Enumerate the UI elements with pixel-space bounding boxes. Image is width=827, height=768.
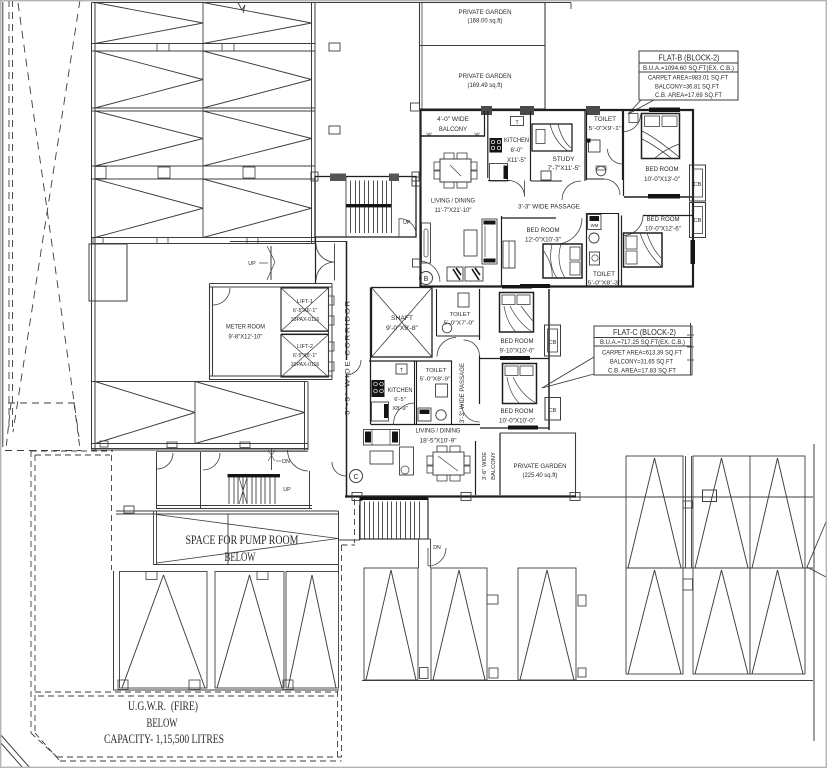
svg-text:LIFT-2: LIFT-2	[297, 344, 313, 350]
flat-B leader line	[628, 100, 641, 114]
svg-text:BALCONY=36.81 SQ.FT: BALCONY=36.81 SQ.FT	[655, 84, 719, 91]
top edge extension line	[545, 2, 571, 4]
svg-text:B: B	[424, 276, 429, 283]
cupboard CB-1 flat-B	[690, 165, 706, 201]
kitchen-B bottom wall and door arc	[488, 180, 510, 182]
shaft box with X brace	[372, 288, 433, 358]
parking stall row4 right wedge	[203, 179, 312, 238]
pump room inner divider line	[227, 514, 229, 565]
flat-C toilet2 WC	[436, 410, 446, 420]
lower stair box	[360, 499, 428, 540]
parking stall row4 left wedge	[95, 179, 203, 238]
flat-C coffee table	[370, 451, 393, 464]
pillars on bottom wall	[352, 493, 362, 501]
bedroom-B2 left wall	[621, 216, 623, 287]
parking stall row3 left wedge	[95, 111, 203, 166]
UGWR boundary dashed inner vertical	[111, 455, 113, 570]
svg-text:METER ROOM: METER ROOM	[226, 324, 265, 331]
study bed furniture	[532, 124, 572, 151]
UGWR boundary dashed left vertical double	[30, 451, 32, 733]
svg-text:UP: UP	[248, 261, 256, 267]
flat-C kitchen door arc	[394, 403, 415, 424]
parking top edge line	[92, 2, 420, 4]
flat-C toilet1 left wall	[436, 289, 438, 336]
bedroom-B2 top wall with door	[643, 215, 693, 217]
entrance UP door leaf	[270, 246, 272, 280]
lift-1 door jambs	[329, 296, 335, 305]
vestibule room walls	[156, 452, 158, 508]
svg-text:12'-0"X10'-3": 12'-0"X10'-3"	[525, 238, 561, 244]
kitchen-B stove	[490, 138, 503, 153]
svg-text:(169.49 sq.ft): (169.49 sq.ft)	[468, 83, 503, 89]
flat-C dining table	[433, 452, 464, 475]
mid stair top wall double	[92, 448, 309, 450]
lift divider wall	[281, 331, 329, 333]
svg-text:CB: CB	[548, 340, 556, 346]
svg-text:CAPACITY- 1,15,500 LITRES: CAPACITY- 1,15,500 LITRES	[104, 731, 224, 746]
UGWR boundary dashed line below tank stalls	[35, 691, 338, 693]
flat-C kitchen stove	[372, 380, 385, 397]
mid stair break X mark	[239, 478, 247, 505]
kitchen-B counter	[490, 164, 508, 182]
private garden outer box	[420, 3, 546, 110]
svg-text:U.G.W.R. (FIRE): U.G.W.R. (FIRE)	[128, 698, 198, 713]
flat-C bedroom divider wall	[480, 358, 549, 360]
svg-text:(225.40 sq.ft): (225.40 sq.ft)	[523, 473, 558, 479]
svg-text:KITCHEN: KITCHEN	[388, 388, 413, 394]
niche room on left wall	[89, 244, 127, 301]
DN door to lower stair	[428, 548, 446, 566]
left wall pillar stubs	[412, 177, 421, 186]
svg-text:10'-0"X10'-0": 10'-0"X10'-0"	[499, 419, 535, 425]
flat-C bedroom1 door arc	[464, 340, 480, 356]
toilet-B1 door arc	[608, 149, 623, 164]
svg-text:BALCONY: BALCONY	[491, 452, 497, 480]
mid stair bottom wall double	[156, 505, 312, 507]
living-B coffee table	[464, 230, 477, 256]
meter room door arc	[213, 288, 230, 305]
flat-C kitchen left wall	[370, 288, 372, 425]
svg-text:9'-10"X10'-0": 9'-10"X10'-0"	[500, 349, 535, 355]
flat-C kitchen counter	[372, 402, 389, 421]
svg-text:LIVING / DINING: LIVING / DINING	[416, 428, 461, 435]
svg-text:9'-0"X9'-8": 9'-0"X9'-8"	[386, 326, 418, 332]
svg-text:5'-0"X9'-1": 5'-0"X9'-1"	[589, 126, 622, 132]
site boundary dashed line left	[8, 0, 10, 428]
svg-text:TOILET: TOILET	[450, 312, 471, 318]
balcony-C walls	[475, 441, 477, 495]
living-B sofa along left wall	[422, 223, 431, 263]
flat-C bedroom right wall	[548, 289, 550, 430]
vestibule door arcs	[157, 453, 173, 469]
balcony-B right wall	[484, 111, 486, 136]
parking stall bottom-A	[364, 568, 418, 680]
svg-text:BED ROOM: BED ROOM	[501, 408, 534, 415]
flat-C leader lines	[542, 357, 594, 388]
break arrow mark right edge	[807, 522, 826, 577]
mid stair DN door leaf	[271, 449, 273, 470]
svg-text:10PAX-0116: 10PAX-0116	[291, 362, 320, 368]
UGWR boundary dashed top	[31, 450, 113, 452]
bedroom-B1 door arc	[624, 115, 641, 132]
svg-text:6'-5": 6'-5"	[394, 397, 406, 403]
flat-C cupboard CB-1	[545, 325, 561, 356]
svg-text:6'-5"X6'-1": 6'-5"X6'-1"	[293, 308, 317, 314]
mid stair dark landing line	[228, 474, 281, 477]
flat-C bedroom2 bed	[503, 364, 537, 404]
double swing door arcs	[316, 244, 335, 263]
parking band pillars row3	[95, 167, 106, 179]
svg-text:TOILET: TOILET	[593, 272, 615, 278]
svg-text:STUDY: STUDY	[553, 156, 575, 163]
bedroom-B1 window bar on top wall	[649, 108, 680, 113]
lift-2 cabin with X brace	[281, 335, 329, 378]
bedroom-B3 bed	[543, 244, 582, 278]
parking stall row2 left wedge	[95, 51, 203, 108]
bedroom-B2 window bar on right wall	[691, 240, 696, 264]
bedroom-B3 wardrobe	[503, 241, 515, 268]
svg-text:PRIVATE GARDEN: PRIVATE GARDEN	[459, 9, 512, 16]
svg-text:BALCONY=31.65 SQ.FT: BALCONY=31.65 SQ.FT	[610, 359, 673, 366]
flat-C bedroom1 bed	[500, 293, 534, 333]
svg-text:C.B. AREA=17.83 SQ.FT: C.B. AREA=17.83 SQ.FT	[608, 368, 676, 375]
UGWR boundary dashed right vertical	[354, 499, 356, 543]
column blocks on top wall	[481, 106, 492, 115]
bedroom-B1 nightstand	[629, 114, 638, 123]
svg-text:3'-3" WIDE PASSAGE: 3'-3" WIDE PASSAGE	[518, 204, 580, 211]
lobby right wall	[328, 288, 330, 377]
bedroom-B1 left wall	[623, 111, 625, 196]
UGWR boundary dashed bevel corner	[31, 733, 57, 757]
flat-C passage door arc near toilet1	[437, 338, 456, 357]
right boundary vertical line	[813, 444, 815, 741]
bedroom-B1 bed	[642, 114, 680, 159]
flat-B top outer wall	[420, 109, 695, 111]
UGWR stall 3	[286, 572, 339, 689]
flat-B entry door arc	[419, 261, 440, 282]
study bottom wall with door	[531, 180, 562, 182]
flat-C toilet1 WC	[458, 293, 469, 307]
svg-text:DN: DN	[282, 459, 290, 465]
toilet-B2 left wall	[586, 213, 588, 286]
flat-B right outer wall	[692, 109, 694, 286]
lobby top wall double	[210, 283, 333, 285]
UGWR boundary dashed bottom double	[57, 756, 342, 758]
UGWR stall 1	[120, 572, 208, 689]
right parking lower stall 2	[693, 568, 750, 674]
flat-B info box frame	[639, 51, 738, 100]
svg-text:FLAT-C (BLOCK-2): FLAT-C (BLOCK-2)	[613, 328, 676, 337]
toilet-B1 left wall	[586, 111, 588, 180]
site boundary solid line left edge	[2, 2, 4, 447]
cupboard CB-2 flat-B	[690, 203, 706, 238]
staircase upper top pillars	[330, 174, 346, 182]
flat-C toilet2 washing machine	[418, 408, 431, 421]
level marker flag on top line	[238, 3, 245, 14]
flat-C toilet1 washbasin	[442, 323, 452, 333]
svg-text:9'-8"X12'-10": 9'-8"X12'-10"	[229, 334, 263, 341]
flat-C entry door arc	[347, 360, 362, 375]
bedroom-B2 bed	[624, 233, 663, 267]
staircase upper box	[315, 177, 416, 238]
flat-C kitchen top wall	[369, 360, 452, 362]
node B circle	[420, 272, 433, 285]
svg-text:KITCHEN: KITCHEN	[504, 137, 529, 144]
svg-text:BELOW: BELOW	[225, 550, 256, 564]
study chair	[541, 171, 551, 180]
toilet-B2 washbasin	[589, 233, 599, 243]
pump room wedge	[157, 515, 339, 564]
svg-text:5'-0"X8'-3": 5'-0"X8'-3"	[588, 281, 621, 287]
flat-C toilet1 bottom wall	[437, 335, 480, 337]
flat-B left outer wall	[419, 109, 421, 287]
svg-text:4'-0" WIDE: 4'-0" WIDE	[437, 117, 469, 123]
svg-text:LIVING / DINING: LIVING / DINING	[431, 198, 475, 205]
pump room bottom wall	[154, 564, 339, 566]
mid stair right wall	[309, 471, 311, 508]
flat-C TV unit	[400, 447, 414, 475]
svg-text:UP: UP	[403, 220, 411, 226]
parking row band lines	[92, 43, 316, 45]
living-B sofa right	[482, 219, 497, 264]
pump room left wall double	[153, 511, 155, 565]
corridor right wall upper segment	[346, 241, 348, 360]
flat-C toilet2 left wall	[416, 361, 418, 424]
svg-text:10PAX-0116: 10PAX-0116	[291, 317, 320, 323]
pump apex junction walls	[339, 539, 361, 541]
kitchen-B geyser box	[511, 117, 524, 126]
svg-text:CB: CB	[548, 408, 556, 414]
parking stall bottom-C	[518, 568, 576, 680]
right parking lower stall 3	[750, 568, 805, 674]
svg-text:W: W	[426, 133, 432, 139]
balcony-B bottom wall	[421, 135, 486, 137]
private garden divider wall	[420, 45, 546, 47]
lift-2 door jambs	[329, 342, 335, 351]
toilet-B1 washbasin	[589, 140, 601, 152]
svg-text:CARPET AREA=613.39 SQ.FT: CARPET AREA=613.39 SQ.FT	[602, 350, 682, 357]
parking stall row3 right wedge	[203, 111, 312, 166]
UGWR stall bottom line	[114, 689, 340, 691]
pump room top wall double	[116, 510, 339, 512]
toilet-B2 WC	[590, 252, 600, 265]
svg-text:UP: UP	[283, 487, 291, 493]
right parking upper stall 2-3 box	[693, 456, 805, 568]
private garden inner wall line	[421, 3, 423, 110]
svg-text:10'-0"X12'-6": 10'-0"X12'-6"	[645, 227, 681, 233]
svg-text:10'-0"X13'-0": 10'-0"X13'-0"	[644, 177, 680, 183]
flat-C toilet2 right wall	[451, 361, 453, 424]
corridor right wall lower segment	[346, 374, 348, 496]
lobby left wall double	[209, 284, 211, 381]
window bar above flat-C bedroom1 bed	[502, 285, 532, 289]
stair hall side pillars	[311, 172, 318, 181]
flat-C bedroom2 door arc	[462, 404, 480, 422]
svg-text:5'-0"X7'-0": 5'-0"X7'-0"	[444, 321, 475, 327]
flat-B / flat-C party wall	[421, 285, 695, 287]
svg-text:BED ROOM: BED ROOM	[527, 227, 560, 234]
svg-text:(168.00 sq.ft): (168.00 sq.ft)	[468, 19, 503, 25]
toilet-B1 bottom wall with door	[587, 178, 605, 180]
svg-text:FLAT-B (BLOCK-2): FLAT-B (BLOCK-2)	[659, 54, 720, 63]
svg-text:TOILET: TOILET	[594, 117, 616, 123]
free-standing pillar upper	[329, 43, 340, 51]
parking block right wall double	[311, 3, 313, 245]
parking stall row1 left wedge	[95, 3, 203, 44]
svg-text:DN: DN	[433, 545, 441, 551]
svg-text:BELOW: BELOW	[147, 715, 178, 730]
toilet-B2 top wall	[587, 213, 619, 215]
svg-text:CB: CB	[693, 182, 701, 188]
flat-C living top wall	[371, 424, 481, 426]
svg-text:6'-5"X6'-1": 6'-5"X6'-1"	[293, 353, 317, 359]
right parking band line	[626, 567, 813, 569]
svg-text:3'-6" WIDE: 3'-6" WIDE	[482, 452, 488, 480]
flat-C bedroom2 bottom wall	[480, 427, 549, 429]
toilet-B2 right wall	[618, 213, 620, 286]
free-standing pillar lower	[329, 126, 340, 134]
flat-C cupboard CB-2	[545, 398, 561, 421]
staircase upper door arc with UP	[399, 219, 417, 237]
lobby bottom wall double	[210, 375, 333, 377]
flat-C sofa	[364, 430, 400, 446]
bottom wall continuation line to parking	[576, 496, 813, 498]
node C circle	[350, 470, 363, 483]
living-B dining table	[440, 159, 471, 182]
UGWR stall 2	[215, 572, 284, 689]
svg-text:B.U.A.=1094.60 SQ.FT(EX. C.B.): B.U.A.=1094.60 SQ.FT(EX. C.B.)	[643, 65, 734, 72]
stair-to-parking wall strip	[418, 539, 420, 568]
parking block left wall double	[91, 3, 93, 451]
right parking lower stall 1	[626, 568, 683, 674]
UGWR stall pillars	[146, 572, 157, 580]
ramp dashed X line (top-left to bottom-right)	[18, 3, 79, 437]
svg-text:11'-7"X21'-10": 11'-7"X21'-10"	[435, 208, 472, 214]
bedroom divider wall B1/B2	[624, 196, 693, 198]
study wall right	[584, 111, 586, 181]
svg-text:W: W	[474, 133, 480, 139]
svg-text:SPACE FOR PUMP ROOM: SPACE FOR PUMP ROOM	[186, 533, 299, 547]
svg-text:BED ROOM: BED ROOM	[646, 166, 679, 173]
mid stair DN door arc	[288, 450, 309, 471]
parking stall row2 right wedge	[203, 51, 312, 108]
ramp bottom dashed trapezoid	[8, 402, 78, 404]
svg-text:7'-7"X11'-5": 7'-7"X11'-5"	[548, 166, 581, 172]
svg-text:PRIVATE GARDEN: PRIVATE GARDEN	[459, 73, 512, 80]
right parking pillar strip	[685, 456, 687, 568]
flat-C kitchen right wall	[414, 361, 416, 424]
private garden C top wall	[500, 432, 576, 434]
svg-text:SHAFT: SHAFT	[391, 315, 413, 322]
svg-text:CB: CB	[693, 218, 701, 224]
parking band pillars row4	[93, 238, 103, 244]
svg-text:B.U.A.=717.25 SQ.FT(EX. C.B.): B.U.A.=717.25 SQ.FT(EX. C.B.)	[600, 339, 685, 346]
parking stall row5 right wedge	[195, 382, 305, 444]
right parking upper stall 1	[626, 456, 683, 568]
svg-text:WM: WM	[591, 223, 599, 228]
lower stair treads	[364, 502, 366, 540]
svg-text:18'-5"X10'-9": 18'-5"X10'-9"	[420, 439, 457, 445]
parking band pillars row1	[157, 44, 169, 52]
flat-C bottom outer wall	[345, 495, 576, 497]
flat-C kitchen geyser box	[396, 364, 407, 374]
parking column divider line	[202, 3, 204, 238]
svg-text:5'-5" WIDE CORRIDOR: 5'-5" WIDE CORRIDOR	[345, 299, 352, 415]
svg-text:TOILET: TOILET	[426, 368, 447, 374]
parking stall bottom-B	[431, 568, 487, 680]
toilet-B1 right wall	[622, 111, 624, 180]
long bottom line	[362, 680, 813, 682]
flat-C passage wall	[479, 289, 481, 340]
stair hall left wall lower part	[315, 237, 317, 284]
living-B armchairs bottom	[447, 267, 463, 281]
dimension bracket mark right of flat-B	[690, 323, 692, 375]
svg-text:5'-0"X8'-9": 5'-0"X8'-9"	[420, 377, 451, 383]
toilet-B2 washing machine	[588, 215, 602, 230]
bedroom-B3 left wall	[501, 216, 503, 286]
toilet-B1 WC	[596, 166, 606, 176]
staircase upper mid landing dark line	[346, 204, 391, 207]
svg-text:CARPET AREA=983.01 SQ.FT: CARPET AREA=983.01 SQ.FT	[648, 75, 728, 82]
parking stall row5 left wedge	[95, 382, 195, 444]
staircase upper treads	[350, 181, 352, 234]
kitchen-B right wall	[530, 111, 532, 181]
parking band pillars row5	[100, 441, 108, 447]
parking stall row1 right wedge	[203, 3, 312, 44]
ramp dashed X line (top-right to bottom-left)	[13, 0, 80, 432]
staircase upper landing divider	[345, 177, 347, 238]
UGWR stall box left wall	[113, 571, 115, 690]
bottom parking pillars	[487, 595, 498, 604]
bedroom-B3 top wall with door	[502, 217, 557, 219]
svg-text:BALCONY: BALCONY	[439, 127, 467, 133]
svg-text:LIFT-1: LIFT-1	[297, 299, 313, 305]
svg-text:BED ROOM: BED ROOM	[647, 216, 680, 223]
lift-1 cabin with X brace	[281, 288, 329, 331]
flat-C info box frame	[594, 326, 692, 375]
parking row5 outline	[92, 381, 308, 383]
svg-text:C.B. AREA=17.69 SQ.FT: C.B. AREA=17.69 SQ.FT	[655, 92, 722, 99]
mid stair treads	[228, 478, 230, 505]
flat-C toilet2 washbasin	[436, 384, 448, 397]
svg-text:BED ROOM: BED ROOM	[501, 338, 534, 345]
flat-C vestibule door arc	[332, 462, 346, 476]
kitchen-B left wall	[487, 111, 489, 178]
window bar on party wall below bedroom-B3	[520, 284, 550, 288]
pump room pillar	[124, 506, 134, 513]
svg-text:X11'-5": X11'-5"	[507, 158, 526, 164]
vestibule top wall	[230, 241, 347, 243]
site boundary diagonal bottom-left corner	[0, 734, 30, 768]
svg-text:6'-0": 6'-0"	[511, 148, 523, 154]
pump room right wall	[338, 511, 340, 575]
svg-text:C: C	[353, 474, 358, 481]
private garden C right wall	[575, 433, 577, 496]
svg-text:PRIVATE GARDEN: PRIVATE GARDEN	[514, 463, 567, 470]
